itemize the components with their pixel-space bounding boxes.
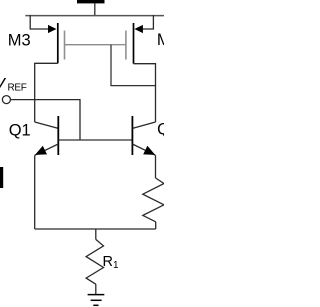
VDD stub	[94, 3, 96, 15]
svg-text:Q1: Q1	[9, 122, 31, 140]
bottom wire	[35, 228, 156, 230]
M3 channel bar	[57, 23, 59, 63]
Q2 collector diagonal	[132, 122, 155, 128]
svg-text:M4: M4	[157, 31, 164, 49]
svg-text:Q2: Q2	[157, 121, 164, 139]
gate net wire down to M4 drain	[111, 45, 156, 86]
Q1 base bar	[57, 116, 59, 155]
Q2 emitter diagonal	[132, 144, 155, 155]
svg-text:R1: R1	[103, 254, 119, 271]
svg-text:REF: REF	[8, 82, 27, 93]
Q1 emitter wire down	[34, 155, 36, 229]
Q1 emitter arrow	[35, 146, 47, 155]
M4 source arrow	[134, 25, 143, 33]
ground bar 2	[91, 299, 102, 301]
resistor R1 zigzag	[86, 239, 103, 284]
ground bar 3	[93, 304, 98, 306]
M4 source wire	[140, 15, 153, 29]
Q1 collector diagonal	[35, 122, 59, 128]
resistor R2 zigzag	[143, 178, 164, 222]
VREF wire	[10, 100, 80, 140]
M4 drain wire to Q2 collector	[134, 64, 156, 122]
R1 bottom lead	[95, 284, 97, 294]
svg-text:V: V	[0, 75, 7, 94]
M3 drain wire to Q1 collector	[35, 63, 58, 122]
top supply rail	[25, 15, 164, 17]
Q2 emitter wire down	[155, 155, 157, 178]
svg-text:M3: M3	[8, 32, 31, 50]
M3 gate plate	[64, 31, 66, 60]
M4 gate plate	[125, 31, 127, 60]
R1 top lead	[95, 229, 97, 239]
ground bar 1	[88, 294, 105, 296]
M4 gate lead	[111, 44, 126, 46]
resistor bottom lead	[155, 222, 157, 229]
Q1 emitter diagonal	[35, 144, 59, 155]
VDD supply bar	[77, 0, 105, 3]
M4 channel bar	[133, 23, 135, 64]
VREF terminal circle	[2, 96, 10, 104]
M3 gate lead	[65, 44, 112, 46]
base line Q1-Q2	[58, 139, 132, 141]
M3 source wire	[30, 15, 49, 29]
M3 source arrow	[48, 25, 57, 33]
Q2 base bar	[131, 116, 133, 155]
Q2 emitter arrow	[143, 146, 155, 155]
left edge crop artifact bar	[0, 167, 3, 188]
